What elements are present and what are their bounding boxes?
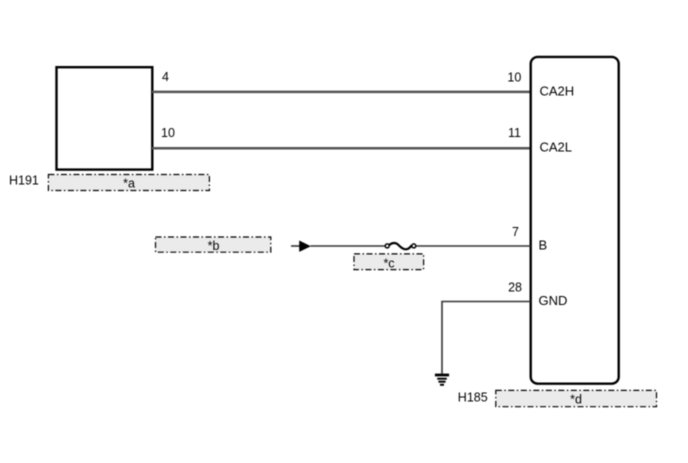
label *d [496,390,657,406]
svg-text:GND: GND [539,293,568,308]
svg-text:H191: H191 [9,174,39,188]
svg-text:28: 28 [508,281,522,295]
wire GND [442,302,531,374]
wire CA2H (pin 4 to pin 10) [152,91,531,94]
svg-text:4: 4 [162,70,169,84]
svg-text:*c: *c [383,256,394,270]
component box H191 [57,67,153,169]
label *b [156,237,271,253]
svg-text:*d: *d [570,392,582,406]
power feed arrow [291,241,311,252]
svg-text:B: B [539,238,548,253]
svg-text:CA2H: CA2H [540,84,575,99]
fuse *c [385,243,416,249]
svg-text:11: 11 [508,126,521,140]
label *a [48,175,209,191]
wire B (arrow to fuse) [311,245,385,247]
svg-text:10: 10 [161,126,175,140]
svg-text:10: 10 [507,70,521,84]
ground [435,375,449,385]
svg-text:*a: *a [123,176,135,190]
connector box H185 (ECU) [531,57,619,384]
svg-text:7: 7 [512,225,519,239]
wire B (fuse to connector) [417,245,531,247]
svg-text:CA2L: CA2L [540,140,573,155]
svg-text:H185: H185 [458,390,488,404]
label *c [354,254,424,270]
wire CA2L (pin 10 to pin 11) [152,147,531,150]
svg-text:*b: *b [208,239,220,253]
